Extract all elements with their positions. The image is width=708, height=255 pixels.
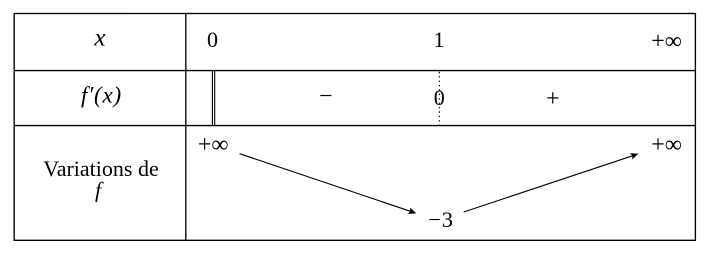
svg-text:+∞: +∞ (198, 132, 229, 158)
svg-text:f′(x): f′(x) (81, 83, 122, 108)
svg-text:−: − (319, 84, 333, 110)
svg-text:x: x (93, 25, 105, 52)
svg-text:−3: −3 (428, 207, 454, 232)
svg-text:+∞: +∞ (651, 132, 682, 158)
svg-text:+∞: +∞ (651, 29, 682, 55)
svg-text:1: 1 (434, 27, 445, 52)
svg-text:0: 0 (434, 85, 445, 110)
svg-text:0: 0 (207, 27, 218, 52)
svg-text:+: + (546, 86, 560, 112)
